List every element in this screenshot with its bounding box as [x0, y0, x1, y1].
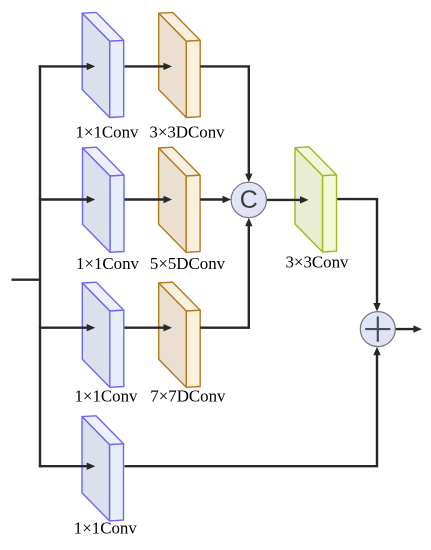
wire branch4 1x1conv to adder: [125, 355, 377, 466]
conv block 7x7DConv branch3: [159, 282, 201, 387]
conv block 1x1Conv branch2: [83, 147, 125, 252]
trunk wire: [39, 65, 41, 467]
conv block 1x1Conv branch1: [82, 12, 124, 117]
svg-text:3×3Conv: 3×3Conv: [285, 253, 349, 272]
svg-text:1×1Conv: 1×1Conv: [75, 123, 139, 142]
svg-text:1×1Conv: 1×1Conv: [74, 387, 138, 406]
conv block 3x3Conv output: [295, 147, 337, 252]
adder node +: [360, 312, 395, 347]
wire branch3 dconv to concat C: [200, 226, 249, 328]
conv block 1x1Conv branch4: [82, 416, 124, 521]
wire branch3 trunk to 1x1conv: [39, 327, 87, 329]
svg-text:3×3DConv: 3×3DConv: [149, 123, 225, 142]
conv block 3x3DConv branch1: [159, 12, 201, 117]
svg-text:7×7DConv: 7×7DConv: [150, 387, 226, 406]
wire branch1 dconv to concat C: [200, 66, 249, 174]
wire branch4 trunk to 1x1conv: [39, 465, 87, 467]
conv block 1x1Conv branch3: [82, 282, 124, 387]
svg-text:C: C: [240, 186, 258, 214]
wire concat C to 3x3conv: [267, 199, 300, 201]
output wire: [396, 328, 414, 330]
wire branch1 1x1conv to dconv: [125, 65, 164, 67]
conv block 5x5DConv branch2: [159, 147, 201, 252]
input wire: [12, 279, 41, 281]
wire branch2 1x1conv to dconv: [125, 198, 164, 200]
wire branch1 trunk to 1x1conv: [39, 65, 87, 67]
concat node C: [231, 182, 266, 217]
wire branch3 1x1conv to dconv: [125, 327, 164, 329]
wire branch2 trunk to 1x1conv: [39, 198, 87, 200]
svg-text:5×5DConv: 5×5DConv: [150, 254, 226, 273]
svg-text:1×1Conv: 1×1Conv: [76, 254, 140, 273]
wire 3x3conv to adder: [337, 199, 377, 303]
svg-text:1×1Conv: 1×1Conv: [74, 519, 138, 538]
wire branch2 dconv to concat C: [200, 198, 223, 200]
